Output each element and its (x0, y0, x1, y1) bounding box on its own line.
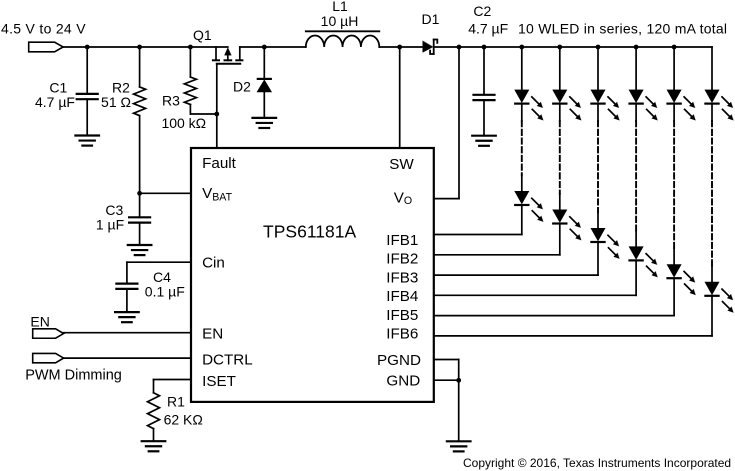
svg-text:IFB6: IFB6 (386, 326, 418, 343)
IC U1 TPS61181A box (191, 148, 434, 402)
LED string 4 (IFB4) (434, 45, 658, 296)
LED string 5 (IFB5) (434, 45, 696, 316)
svg-text:10 WLED in series, 120 mA tota: 10 WLED in series, 120 mA total (518, 21, 727, 37)
wire rail Q1-drain to L1 (240, 46, 306, 48)
resistor R2 (134, 45, 146, 194)
svg-text:EN: EN (30, 313, 49, 329)
terminal EN (30, 313, 63, 338)
pin label IFB2 (386, 251, 418, 268)
pin label Cin (202, 255, 225, 272)
wire SW node to SW pin (397, 45, 402, 148)
svg-text:R1: R1 (167, 393, 185, 409)
inductor L1 (306, 31, 380, 47)
LED string 1 (IFB1) (434, 45, 544, 235)
svg-text:100 kΩ: 100 kΩ (161, 115, 206, 131)
svg-text:VO: VO (394, 189, 412, 207)
pin label SW (389, 156, 414, 173)
label C4 (145, 269, 185, 300)
svg-text:IFB5: IFB5 (386, 307, 418, 324)
svg-text:4.7 µF: 4.7 µF (468, 21, 508, 37)
svg-text:C2: C2 (473, 3, 491, 19)
wire EN (64, 332, 191, 334)
LED string 2 (IFB2) (434, 45, 582, 255)
svg-text:Q1: Q1 (193, 27, 212, 43)
svg-text:IFB1: IFB1 (386, 232, 418, 249)
label C1 (35, 80, 75, 110)
svg-text:EN: EN (202, 325, 223, 342)
input terminal 4.5V-24V (1, 21, 86, 52)
pin label VO (394, 189, 412, 207)
pin label GND (386, 372, 420, 389)
pin label Fault (202, 155, 237, 172)
wire input rail (63, 46, 228, 48)
pin label PGND (377, 352, 421, 369)
svg-text:4.7 µF: 4.7 µF (35, 94, 75, 110)
svg-text:IFB3: IFB3 (386, 269, 418, 286)
svg-text:Copyright © 2016, Texas Instru: Copyright © 2016, Texas Instruments Inco… (463, 456, 731, 470)
diode D1 (423, 40, 438, 55)
svg-text:0.1 µF: 0.1 µF (145, 284, 185, 300)
pin label VBAT (202, 185, 232, 204)
label R3 (161, 93, 206, 132)
terminal PWM Dimming (25, 353, 122, 383)
svg-text:D1: D1 (422, 11, 440, 27)
transistor Q1 (213, 47, 243, 64)
label R1 (164, 393, 203, 427)
wire VBAT (137, 191, 191, 196)
svg-text:10 µH: 10 µH (321, 13, 359, 29)
ground C2 (472, 136, 496, 146)
label D2 (233, 79, 251, 95)
ground C3 (128, 245, 152, 255)
wire ISET (154, 380, 192, 393)
wire Cin (127, 262, 191, 283)
svg-text:D2: D2 (233, 79, 251, 95)
label L1 (321, 0, 359, 29)
wire DCTRL (64, 357, 191, 359)
pin label EN (202, 325, 223, 342)
wire PGND (434, 360, 459, 381)
ground C1 (75, 136, 99, 146)
capacitor C1 (77, 45, 98, 136)
svg-text:4.5 V to 24 V: 4.5 V to 24 V (1, 21, 86, 37)
LED string 6 (IFB6) (434, 47, 734, 336)
pin label IFB1 (386, 232, 418, 249)
svg-text:Cin: Cin (202, 255, 225, 272)
pin label IFB6 (386, 326, 418, 343)
capacitor C3 (129, 193, 150, 245)
wire GND (434, 378, 461, 441)
diode D2 (257, 45, 271, 118)
svg-text:ISET: ISET (202, 373, 236, 390)
svg-text:R3: R3 (162, 93, 180, 109)
pin label ISET (202, 373, 236, 390)
pin label DCTRL (202, 352, 253, 369)
svg-text:IFB2: IFB2 (386, 251, 418, 268)
LED string 3 (IFB3) (434, 45, 620, 276)
svg-text:SW: SW (389, 156, 414, 173)
ground C4 (115, 312, 139, 322)
label R2 (101, 80, 131, 110)
svg-text:VBAT: VBAT (202, 185, 232, 204)
capacitor C4 (116, 284, 137, 313)
svg-text:PGND: PGND (377, 352, 421, 369)
svg-text:GND: GND (386, 372, 420, 389)
svg-text:PWM Dimming: PWM Dimming (25, 367, 122, 383)
ground R1 (142, 441, 166, 451)
wire rail L1 to D1 (379, 46, 422, 48)
pin label IFB3 (386, 269, 418, 286)
label copyright (463, 456, 731, 470)
svg-text:L1: L1 (332, 0, 348, 14)
label D1 (422, 11, 440, 27)
label Q1 (193, 27, 212, 43)
svg-text:51 Ω: 51 Ω (101, 94, 131, 110)
wire Q1 gate to Fault pin (214, 64, 219, 148)
capacitor C2 (474, 45, 495, 136)
wire VO node to VO pin (434, 45, 462, 199)
pin label IFB4 (386, 288, 418, 305)
ground PGND-GND (447, 441, 471, 451)
label TPS61181A (263, 221, 356, 241)
pin label IFB5 (386, 307, 418, 324)
svg-text:DCTRL: DCTRL (202, 352, 253, 369)
resistor R3 (184, 45, 216, 114)
label C2 (468, 3, 508, 37)
svg-text:Fault: Fault (202, 155, 237, 172)
ground D2 (253, 118, 277, 128)
svg-text:62 KΩ: 62 KΩ (164, 411, 203, 427)
label C3 (96, 202, 124, 233)
wire rail D1 to LED anode bus (434, 46, 712, 48)
svg-text:1 µF: 1 µF (96, 217, 124, 233)
resistor R1 (148, 393, 160, 441)
svg-text:IFB4: IFB4 (386, 288, 418, 305)
label WLED note (518, 21, 727, 37)
svg-text:TPS61181A: TPS61181A (263, 221, 356, 241)
